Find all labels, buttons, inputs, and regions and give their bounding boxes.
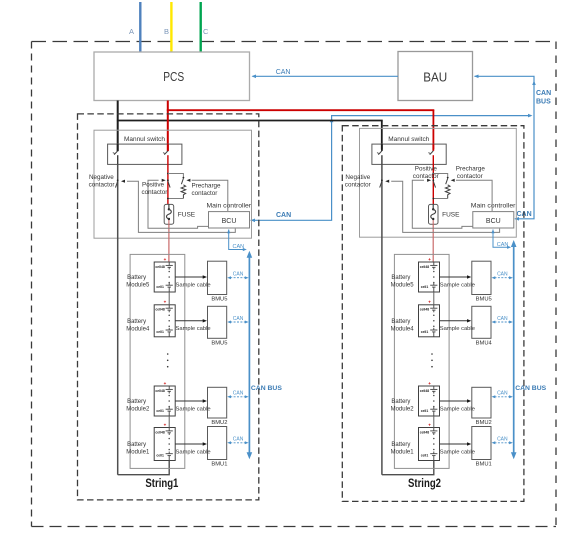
svg-text:BMU5: BMU5	[211, 341, 227, 347]
svg-text:Module2: Module2	[126, 407, 150, 413]
svg-text:Precharge: Precharge	[456, 166, 486, 173]
svg-text:Module2: Module2	[391, 407, 415, 413]
svg-text:Sample cable: Sample cable	[440, 326, 475, 332]
svg-text:Module5: Module5	[391, 283, 415, 289]
svg-text:+: +	[428, 257, 431, 262]
svg-text:Module5: Module5	[126, 283, 150, 289]
svg-text:CAN: CAN	[233, 272, 244, 278]
svg-text:Sample cable: Sample cable	[176, 326, 211, 332]
svg-text:BMU5: BMU5	[476, 297, 492, 303]
svg-text:PCS: PCS	[163, 70, 184, 84]
svg-text:C: C	[203, 27, 209, 36]
svg-text:CAN: CAN	[536, 90, 551, 97]
svg-text:Battery: Battery	[127, 399, 146, 405]
svg-text:BCU: BCU	[222, 218, 237, 225]
svg-text:CAN: CAN	[497, 272, 508, 278]
svg-text:contactor: contactor	[142, 189, 168, 196]
svg-text:BMU2: BMU2	[476, 420, 492, 426]
svg-text:CAN: CAN	[497, 437, 508, 443]
svg-text:+: +	[164, 300, 167, 305]
svg-text:Module4: Module4	[126, 326, 150, 332]
svg-text:BMU2: BMU2	[211, 420, 227, 426]
svg-text:CAN BUS: CAN BUS	[251, 385, 282, 392]
svg-text:cell1: cell1	[156, 454, 164, 458]
svg-text:CAN: CAN	[233, 244, 245, 250]
svg-text:cell1: cell1	[156, 330, 164, 334]
svg-text:cell48: cell48	[155, 265, 165, 269]
svg-text:Battery: Battery	[127, 275, 146, 281]
svg-text:Positive: Positive	[142, 182, 165, 189]
svg-text:Positive: Positive	[415, 166, 438, 173]
svg-text:Sample cable: Sample cable	[440, 282, 475, 288]
svg-text:Mannul switch: Mannul switch	[388, 136, 429, 143]
svg-text:BCU: BCU	[486, 218, 501, 225]
svg-text:CAN: CAN	[276, 69, 291, 76]
svg-text:CAN: CAN	[233, 437, 244, 443]
svg-text:CAN: CAN	[497, 316, 508, 322]
svg-text:cell48: cell48	[155, 308, 165, 312]
svg-text:+: +	[164, 257, 167, 262]
svg-text:contactor: contactor	[192, 190, 218, 197]
svg-text:contactor: contactor	[345, 182, 371, 189]
svg-text:Precharge: Precharge	[192, 183, 222, 190]
svg-text:contactor: contactor	[413, 173, 439, 180]
svg-text:+: +	[164, 422, 167, 427]
svg-text:String2: String2	[408, 478, 441, 490]
svg-text:Sample cable: Sample cable	[176, 449, 211, 455]
svg-text:Battery: Battery	[391, 319, 410, 325]
svg-text:Sample cable: Sample cable	[440, 449, 475, 455]
svg-text:FUSE: FUSE	[178, 212, 196, 219]
svg-text:Mannul switch: Mannul switch	[124, 136, 165, 143]
svg-text:BUS: BUS	[536, 99, 551, 106]
svg-text:cell48: cell48	[155, 389, 165, 393]
svg-text:FUSE: FUSE	[442, 212, 460, 219]
svg-text:Negative: Negative	[345, 174, 370, 181]
svg-text:CAN: CAN	[497, 242, 509, 248]
svg-text:contactor: contactor	[457, 173, 483, 180]
svg-text:cell1: cell1	[421, 330, 429, 334]
svg-text:Battery: Battery	[391, 399, 410, 405]
svg-text:cell48: cell48	[420, 265, 430, 269]
svg-text:Module4: Module4	[391, 326, 415, 332]
svg-text:BMU1: BMU1	[211, 462, 227, 468]
svg-text:Module1: Module1	[391, 450, 415, 456]
svg-text:cell1: cell1	[421, 409, 429, 413]
svg-text:BMU5: BMU5	[211, 297, 227, 303]
svg-text:cell1: cell1	[421, 285, 429, 289]
svg-text:A: A	[129, 27, 134, 36]
svg-text:Main controller: Main controller	[471, 203, 516, 210]
svg-text:Sample cable: Sample cable	[176, 282, 211, 288]
svg-text:Main controller: Main controller	[207, 203, 252, 210]
svg-text:Sample cable: Sample cable	[440, 406, 475, 412]
svg-text:Battery: Battery	[391, 442, 410, 448]
svg-text:CAN: CAN	[233, 316, 244, 322]
svg-text:Negative: Negative	[89, 174, 114, 181]
svg-text:+: +	[164, 381, 167, 386]
svg-text:CAN: CAN	[233, 391, 244, 397]
svg-text:B: B	[164, 27, 169, 36]
svg-text:+: +	[428, 300, 431, 305]
svg-text:CAN: CAN	[497, 391, 508, 397]
svg-text:cell48: cell48	[420, 430, 430, 434]
svg-text:Battery: Battery	[391, 275, 410, 281]
svg-text:cell1: cell1	[421, 454, 429, 458]
svg-text:CAN: CAN	[276, 212, 291, 219]
svg-text:cell48: cell48	[420, 308, 430, 312]
svg-text:cell1: cell1	[156, 409, 164, 413]
svg-text:Module1: Module1	[126, 450, 150, 456]
svg-text:BMU1: BMU1	[476, 462, 492, 468]
svg-text:String1: String1	[145, 478, 178, 490]
svg-text:cell48: cell48	[420, 389, 430, 393]
svg-text:Sample cable: Sample cable	[176, 406, 211, 412]
svg-text:+: +	[428, 422, 431, 427]
svg-text:BAU: BAU	[423, 71, 447, 85]
svg-text:CAN BUS: CAN BUS	[515, 385, 546, 392]
svg-text:Battery: Battery	[127, 442, 146, 448]
svg-text:+: +	[428, 381, 431, 386]
svg-text:BMU4: BMU4	[476, 341, 493, 347]
svg-text:contactor: contactor	[89, 182, 115, 189]
svg-text:cell1: cell1	[156, 285, 164, 289]
svg-text:Battery: Battery	[127, 319, 146, 325]
svg-text:cell48: cell48	[155, 430, 165, 434]
